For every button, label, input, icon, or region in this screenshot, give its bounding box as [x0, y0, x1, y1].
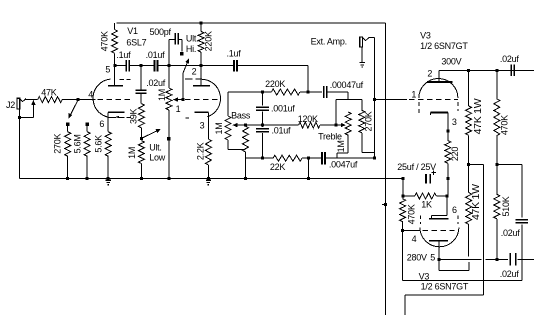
svg-text:2: 2 — [427, 68, 432, 78]
label 1/2 6SN7GT (upper) — [420, 41, 468, 51]
label 1/2 6SN7GT (lower) — [421, 282, 469, 292]
svg-text:270K: 270K — [52, 133, 62, 153]
tube V1a grid — [78, 90, 131, 100]
resistor 47K (input) — [38, 88, 78, 103]
svg-text:.02uf: .02uf — [500, 54, 520, 64]
svg-text:220: 220 — [450, 147, 460, 162]
tube V3b envelope — [420, 227, 459, 247]
node V1 pin5 — [105, 64, 116, 75]
tube V1b plate — [193, 66, 210, 86]
node Ult.Low pivot — [140, 137, 143, 140]
capacitor .001uf — [256, 92, 295, 125]
wire tone mid row — [246, 124, 263, 126]
wiper volume — [173, 98, 185, 102]
wire B+ top rail — [116, 22, 385, 24]
wire ext-amp vertical — [374, 38, 376, 159]
capacitor .1uf (V1a-V1b) — [115, 50, 141, 71]
wire 22K tap to rail — [307, 158, 310, 180]
svg-text:6SL7: 6SL7 — [126, 38, 146, 48]
tube V3a plate — [427, 68, 453, 82]
svg-text:500pf: 500pf — [150, 27, 172, 37]
tube V3a envelope dashes — [419, 102, 458, 116]
svg-text:Hi.: Hi. — [186, 44, 196, 54]
svg-text:300V: 300V — [441, 56, 461, 66]
node treble wiper — [334, 124, 337, 127]
label 6SL7 — [126, 38, 146, 48]
svg-text:1K: 1K — [421, 200, 432, 210]
capacitor 500pf — [150, 27, 182, 66]
resistor 2.2K (V1b cathode) — [195, 139, 211, 180]
wire 1K to V3b cathode — [432, 196, 457, 219]
wire 300V row — [439, 69, 534, 71]
node .01uf bottom — [261, 157, 264, 160]
wire B+ vertical line — [384, 23, 386, 315]
wire .0047 left lead — [308, 157, 322, 159]
wire bass-pot top — [228, 92, 262, 116]
svg-text:22K: 22K — [270, 162, 286, 172]
node V3b grid — [401, 229, 404, 232]
tube V3b plate — [407, 241, 448, 263]
wire line A — [403, 280, 522, 282]
resistor 220K (V1b plate load) — [198, 22, 213, 66]
wire to V1 pin2 — [169, 65, 201, 67]
label V1 — [127, 26, 138, 36]
svg-text:1: 1 — [176, 104, 181, 114]
resistor 510K — [494, 165, 511, 260]
capacitor .00047uf — [308, 80, 363, 100]
svg-text:5: 5 — [105, 65, 110, 75]
label V3 (upper) — [420, 30, 431, 40]
tube V3b cathode — [429, 218, 448, 220]
svg-text:470K: 470K — [99, 31, 109, 51]
svg-text:Low: Low — [149, 153, 166, 163]
capacitor .02uf (V1) — [135, 66, 165, 104]
node 470K/510K junction — [495, 163, 498, 166]
svg-text:47K 1W: 47K 1W — [470, 184, 482, 220]
resistor 270K (treble leg) — [359, 100, 375, 159]
resistor 5.6K (V1a cathode) — [93, 132, 111, 181]
svg-text:5: 5 — [430, 252, 435, 262]
svg-text:3: 3 — [200, 121, 205, 131]
svg-text:Bass: Bass — [231, 110, 251, 120]
resistor 47K 1W (lower) — [466, 165, 482, 257]
wire .02uf branch top — [497, 165, 522, 218]
resistor 47K 1W (upper) — [466, 70, 485, 164]
jack Ext. Amp — [311, 36, 375, 47]
node tone output — [373, 157, 376, 160]
node 25uf right — [446, 177, 449, 180]
wire feedback vertical — [483, 165, 485, 295]
svg-text:Treble: Treble — [318, 132, 342, 142]
node 47K junction — [467, 163, 470, 166]
resistor 220K (tone) — [262, 79, 308, 95]
tube V3a grid — [409, 90, 458, 100]
resistor 1K — [401, 193, 448, 210]
svg-text:.02uf: .02uf — [500, 269, 520, 279]
node V1 pin2 — [192, 64, 203, 76]
svg-text:.01uf: .01uf — [272, 126, 292, 136]
resistor 39K — [128, 104, 144, 139]
node 22K ground tap — [307, 157, 310, 160]
svg-text:5.6K: 5.6K — [93, 135, 103, 153]
svg-text:1: 1 — [411, 90, 416, 100]
potentiometer 1M (volume) — [157, 66, 172, 181]
wire ext-amp sleeve — [361, 47, 363, 62]
switch J2 shorting contact — [18, 100, 35, 119]
node .02uf tap — [140, 64, 143, 67]
wiper bass — [232, 123, 247, 127]
resistor 1M (39K leg) — [127, 141, 145, 181]
wire V3b grid line down — [402, 231, 404, 281]
svg-text:1M: 1M — [336, 140, 346, 152]
svg-text:39K: 39K — [128, 109, 138, 125]
label V3 (lower) — [419, 272, 430, 282]
tube V1a plate — [108, 66, 123, 86]
node V3b plate — [437, 258, 440, 261]
node V3a cathode junction — [446, 129, 449, 132]
resistor 470K (right) — [494, 70, 510, 164]
svg-text:Ult.: Ult. — [149, 143, 162, 153]
resistor 22K — [262, 155, 308, 172]
svg-text:280V: 280V — [407, 253, 427, 263]
svg-text:1/2 6SN7GT: 1/2 6SN7GT — [421, 282, 469, 292]
ground (left) — [106, 180, 111, 185]
svg-text:470K: 470K — [499, 115, 509, 135]
node 510K bottom — [495, 258, 498, 261]
ground (ext amp) — [360, 63, 365, 68]
wire 47K jog — [469, 164, 484, 166]
capacitor .02uf (output) — [500, 253, 534, 279]
svg-text:47K 1W: 47K 1W — [472, 98, 484, 134]
svg-text:V3: V3 — [420, 30, 431, 40]
resistor 5.6M (grid leak) — [72, 123, 90, 181]
tube V3b envelope dashes — [420, 216, 458, 225]
svg-text:3: 3 — [452, 117, 457, 127]
tube V1b grid — [176, 100, 219, 114]
node 47K-1W top — [467, 69, 470, 72]
svg-text:V1: V1 — [127, 26, 138, 36]
svg-text:Ult.: Ult. — [186, 34, 199, 44]
tube V1b envelope dashes — [185, 79, 192, 118]
node volume-pot top — [167, 64, 170, 67]
tube V1b envelope — [196, 79, 221, 117]
resistor 270K (bass leg) — [243, 125, 249, 180]
resistor 220 (V3 cathode) — [445, 131, 460, 180]
capacitor .01uf (tone) — [256, 125, 291, 158]
svg-text:4: 4 — [88, 90, 93, 100]
node 25uf left — [401, 177, 404, 180]
svg-text:5.6M: 5.6M — [72, 134, 82, 153]
svg-text:.02uf: .02uf — [501, 228, 521, 238]
node 220K right — [307, 91, 310, 94]
svg-text:220K: 220K — [265, 79, 285, 89]
resistor 270K (grid leak) — [52, 123, 70, 181]
svg-text:J2: J2 — [6, 100, 15, 110]
wire line B — [405, 295, 484, 315]
wire rail to 1K left — [402, 179, 404, 196]
switch grid-leak selector — [69, 100, 78, 118]
svg-text:.1uf: .1uf — [116, 50, 131, 60]
ground (center) — [206, 180, 211, 185]
svg-text:.001uf: .001uf — [271, 103, 295, 113]
capacitor .02uf (feedback) — [501, 220, 528, 281]
wire 22K row start — [246, 157, 263, 159]
resistor 470K (V3b grid) — [400, 196, 417, 231]
svg-text:1/2 6SN7GT: 1/2 6SN7GT — [420, 41, 468, 51]
svg-text:120K: 120K — [298, 114, 318, 124]
svg-text:25uf / 25V: 25uf / 25V — [397, 162, 436, 172]
svg-text:4: 4 — [412, 234, 417, 244]
svg-text:2: 2 — [192, 66, 197, 76]
tube V3a envelope — [419, 79, 458, 99]
node 470K top — [495, 69, 498, 72]
node .001uf top — [261, 91, 264, 94]
terminal Ult.Hi contact — [180, 52, 184, 56]
switch Ult. Hi — [183, 34, 199, 100]
jack J2 — [6, 98, 26, 110]
svg-text:.02uf: .02uf — [146, 78, 166, 88]
wiper treble — [318, 123, 346, 142]
svg-text:220K: 220K — [203, 31, 213, 51]
svg-text:47K: 47K — [41, 88, 57, 98]
potentiometer 1M (Bass) — [214, 110, 251, 149]
wire rail to 1K right — [447, 179, 449, 196]
svg-text:6: 6 — [99, 119, 104, 129]
tube V1a cathode — [99, 112, 124, 131]
svg-text:Ext. Amp.: Ext. Amp. — [311, 36, 347, 46]
resistor 120K — [262, 114, 336, 128]
svg-text:.00047uf: .00047uf — [330, 80, 364, 90]
terminal Ult.Low contact — [167, 137, 171, 141]
svg-text:1M: 1M — [214, 122, 224, 134]
svg-text:270K: 270K — [363, 111, 373, 131]
tube V1a envelope — [93, 79, 125, 118]
wire J2 sleeve down — [19, 109, 21, 179]
svg-text:510K: 510K — [501, 196, 511, 216]
capacitor .0047uf — [322, 152, 375, 170]
svg-text:.1uf: .1uf — [227, 48, 242, 58]
tube V1a envelope dashes — [120, 79, 131, 117]
svg-text:6: 6 — [452, 205, 457, 215]
svg-text:.0047uf: .0047uf — [329, 160, 358, 170]
wire to V3 pin1 — [375, 99, 408, 101]
wire pin5 U-link — [439, 259, 469, 270]
svg-text:1M: 1M — [127, 147, 137, 159]
node V3a grid tap — [373, 98, 376, 101]
potentiometer 1M (Treble) — [336, 112, 351, 158]
label 300V — [441, 56, 461, 66]
capacitor .02uf (top right) — [500, 54, 520, 76]
svg-text:.01uf: .01uf — [146, 50, 166, 60]
capacitor 25uf/25V — [397, 162, 436, 183]
resistor 470K (V1a plate load) — [99, 23, 117, 66]
tube V3b grid — [403, 230, 455, 244]
capacitor .01uf — [141, 50, 169, 71]
svg-text:470K: 470K — [407, 204, 417, 224]
wire treble top rail — [336, 100, 362, 125]
wire .1uf down to 220K — [307, 66, 309, 92]
capacitor .1uf (to tone stack) — [201, 48, 308, 71]
tube V3a cathode — [431, 113, 457, 131]
wire ground rail — [20, 178, 403, 180]
node V1a grid junction — [76, 98, 79, 101]
svg-text:1M: 1M — [157, 89, 167, 101]
node B+ tap stub — [382, 203, 387, 206]
wire J2 tip to 47K — [26, 99, 38, 101]
wire output row — [439, 258, 508, 260]
svg-text:2.2K: 2.2K — [195, 142, 205, 160]
node tone mid — [261, 124, 264, 127]
tube V1b cathode — [195, 112, 209, 139]
switch Ult. Low — [141, 129, 165, 163]
